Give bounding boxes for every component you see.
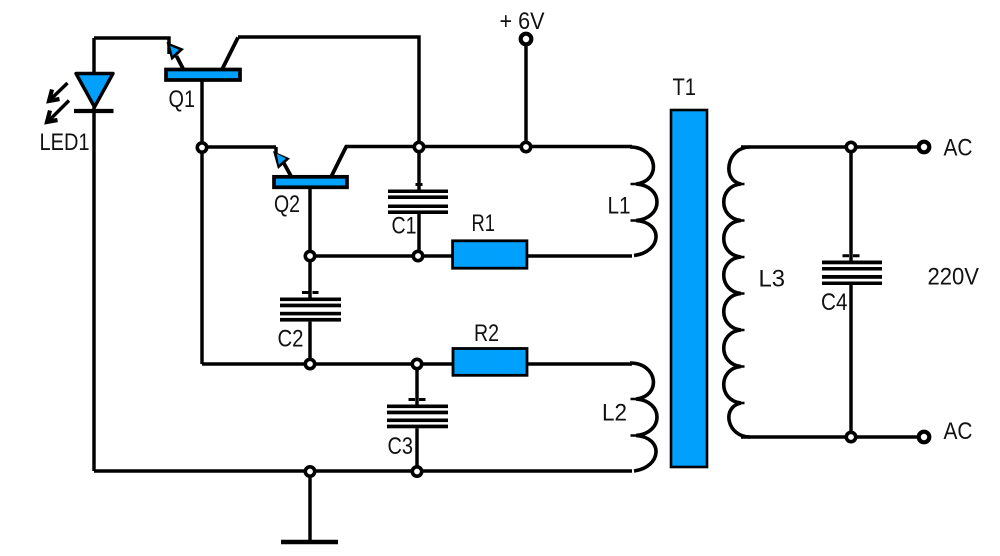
terminal AC bottom bbox=[919, 432, 930, 443]
wire Q1 base lead down to row 364 bbox=[200, 80, 203, 364]
wire top left from LED to Q1 emitter bbox=[94, 38, 169, 54]
resistor R2 bbox=[453, 349, 527, 376]
capacitor C3 bbox=[387, 364, 448, 471]
wire Q2 base lead bbox=[308, 187, 311, 256]
wire LED cathode lead down bbox=[92, 107, 95, 471]
wire row y=256 (R1 row) bbox=[310, 254, 632, 257]
inductor L3 bbox=[724, 147, 750, 437]
capacitor C1 bbox=[388, 147, 448, 256]
wire LED anode lead bbox=[92, 38, 95, 74]
svg-text:AC: AC bbox=[944, 135, 973, 162]
svg-text:R2: R2 bbox=[474, 320, 499, 347]
node junction +6V / row147 bbox=[521, 142, 530, 151]
wire row y=147 right segment bbox=[345, 145, 632, 148]
svg-text:L1: L1 bbox=[608, 193, 631, 220]
transformer T1 core bbox=[671, 110, 707, 467]
svg-text:L3: L3 bbox=[759, 266, 786, 293]
wire +6V lead bbox=[524, 46, 527, 147]
svg-text:C2: C2 bbox=[278, 326, 304, 353]
inductor L2 bbox=[630, 363, 657, 471]
L1 L2 cusp ticks bbox=[631, 184, 638, 436]
svg-text:220V: 220V bbox=[928, 264, 980, 291]
node junction C3 bottom / bottom rail bbox=[412, 467, 421, 476]
wire top right rail bbox=[741, 145, 917, 148]
node junction C4 bottom bbox=[846, 432, 855, 441]
svg-text:C4: C4 bbox=[821, 289, 848, 316]
svg-text:C3: C3 bbox=[388, 433, 414, 460]
capacitor C2 bbox=[280, 256, 341, 364]
node junction Q2 base / row256 bbox=[305, 251, 314, 260]
svg-text:C1: C1 bbox=[392, 213, 417, 240]
terminal +6V bbox=[521, 34, 532, 45]
wire top rail right of Q1 collector bbox=[238, 37, 419, 147]
transistor Q1 bbox=[166, 38, 240, 81]
svg-text:AC: AC bbox=[944, 418, 973, 445]
node junction C4 top bbox=[846, 142, 855, 151]
svg-text:+ 6V: + 6V bbox=[500, 8, 545, 35]
node junction ground / bottom rail bbox=[305, 467, 314, 476]
wire ground stem bbox=[308, 471, 311, 542]
LED1 bbox=[74, 74, 114, 112]
wire bottom rail bbox=[94, 469, 632, 472]
svg-text:LED1: LED1 bbox=[40, 129, 90, 156]
svg-text:T1: T1 bbox=[673, 74, 697, 101]
node junction C2 bottom / row364 bbox=[305, 359, 314, 368]
transistor Q2 bbox=[273, 146, 347, 187]
L3 cusp ticks bbox=[739, 184, 745, 403]
resistor R1 bbox=[453, 241, 527, 268]
inductor L1 bbox=[630, 147, 657, 256]
ground bbox=[281, 540, 338, 545]
node junction Q1 base / row147 bbox=[197, 143, 206, 152]
node junction C1 bottom / row256 bbox=[413, 251, 422, 260]
svg-text:Q1: Q1 bbox=[169, 86, 196, 113]
svg-text:L2: L2 bbox=[602, 400, 627, 427]
wire row y=147 bbox=[202, 145, 276, 148]
node junction top rail / C1 bbox=[414, 142, 423, 151]
capacitor C4 bbox=[822, 147, 882, 437]
wire row y=364 (R2 row) bbox=[202, 362, 632, 365]
svg-text:Q2: Q2 bbox=[274, 191, 300, 218]
LED arrow 2 bbox=[47, 101, 69, 123]
LED arrow 1 bbox=[49, 83, 68, 101]
node junction C3 top / row364 bbox=[412, 359, 421, 368]
wire bottom right rail bbox=[741, 435, 917, 438]
terminal AC top bbox=[919, 142, 930, 153]
svg-text:R1: R1 bbox=[472, 210, 496, 237]
